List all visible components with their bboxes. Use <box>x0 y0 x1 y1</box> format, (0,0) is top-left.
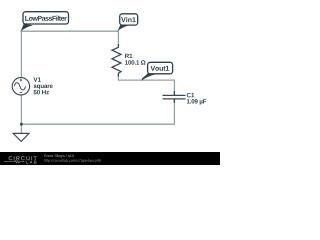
footer credit line <box>44 154 73 157</box>
footer logo LAB <box>26 161 37 164</box>
flag LowPassFilter tail <box>20 24 33 32</box>
flag LowPassFilter box <box>23 12 69 24</box>
flag Vin1 tail <box>117 25 128 32</box>
footer bar <box>0 152 220 165</box>
wire R1 bottom to Vout node <box>117 75 119 81</box>
flag Vin1 text <box>121 17 136 22</box>
wire left vertical (top corner to V1 plus) <box>20 31 22 78</box>
wire Vin node down to R1 top <box>117 31 119 46</box>
flag Vin1 box <box>120 14 138 25</box>
wire C1 bottom to bottom rail <box>173 100 175 125</box>
label R1 value 100.1 Ohm <box>125 60 145 64</box>
label C1 name <box>187 93 195 97</box>
label R1 name <box>125 54 132 58</box>
label C1 value 1.09 uF <box>187 99 206 105</box>
wire middle horizontal (node Vout) <box>118 79 174 81</box>
flag Vout1 box <box>148 62 173 74</box>
wire right vertical to C1 top <box>173 80 175 95</box>
ground <box>13 133 29 141</box>
footer logo rule with zigzag <box>4 161 25 163</box>
wire top horizontal (node Vin) <box>21 30 118 32</box>
footer logo CIRCUIT <box>9 156 37 160</box>
voltage source V1 <box>12 78 29 95</box>
flag LowPassFilter text <box>25 16 66 21</box>
footer url line <box>44 159 101 162</box>
label V1 waveform square <box>34 85 53 90</box>
label V1 name <box>33 77 40 81</box>
flag Vout1 text <box>151 66 170 71</box>
node junction dot at ground rail <box>20 123 23 126</box>
flag Vout1 tail <box>141 73 156 81</box>
wire bottom horizontal rail <box>21 123 174 125</box>
wire V1 minus down to ground <box>20 95 22 133</box>
capacitor C1 <box>163 91 186 103</box>
label V1 frequency 50 Hz <box>34 90 49 94</box>
resistor R1 <box>112 44 121 77</box>
